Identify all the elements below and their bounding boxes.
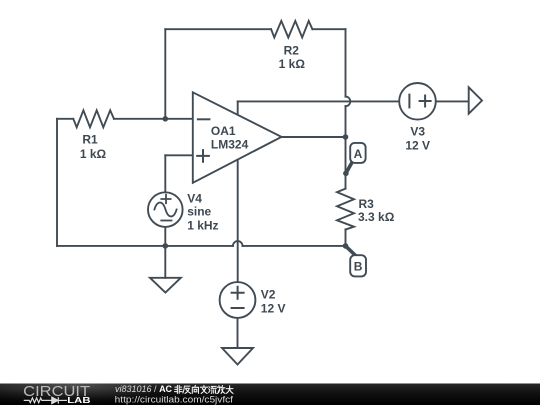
wire op-amp output bbox=[282, 136, 346, 138]
output flag bbox=[469, 87, 482, 113]
svg-text:B: B bbox=[354, 259, 363, 273]
svg-text:1 kHz: 1 kHz bbox=[187, 218, 218, 232]
svg-text:vi831016 / AC: vi831016 / AC bbox=[115, 384, 173, 394]
wire V3 to output flag bbox=[436, 100, 469, 102]
svg-text:sine: sine bbox=[187, 205, 211, 219]
wire top feedback left segment bbox=[165, 28, 271, 30]
node B box bbox=[350, 255, 366, 276]
V2 plus sign bbox=[232, 287, 244, 299]
junction dot output node bbox=[343, 134, 349, 140]
junction dot node A bbox=[343, 171, 349, 177]
wire vertical output node to R3 bbox=[345, 137, 347, 189]
wire R3 bottom to node B bbox=[345, 230, 347, 246]
resistor R3 bbox=[337, 189, 354, 230]
svg-text:V2: V2 bbox=[261, 287, 276, 301]
wire noninverting input horizontal bbox=[165, 154, 193, 156]
wire hop over V- supply wire bbox=[233, 241, 243, 246]
wire ground stem under V4 node bbox=[164, 246, 166, 278]
CJK char xiang bbox=[192, 385, 198, 393]
V4 plus sign bbox=[161, 195, 170, 203]
wire op-amp V+ pin stub bbox=[237, 101, 239, 115]
V4 sine symbol bbox=[154, 203, 176, 217]
wire V+ supply horizontal to V3 bbox=[238, 100, 400, 102]
svg-text:1 kΩ: 1 kΩ bbox=[80, 147, 107, 161]
voltage source V4 circle bbox=[148, 192, 183, 227]
svg-text:LM324: LM324 bbox=[211, 138, 249, 152]
svg-text:12 V: 12 V bbox=[405, 139, 430, 153]
voltage source V2 circle bbox=[220, 282, 256, 318]
svg-text:http://circuitlab.com/c5jvfcf: http://circuitlab.com/c5jvfcf bbox=[115, 394, 234, 404]
V4 minus sign bbox=[161, 220, 171, 222]
CJK char da bbox=[226, 386, 233, 394]
ground under V2 bbox=[222, 348, 253, 365]
voltage source V3 circle bbox=[399, 83, 436, 120]
svg-text:R2: R2 bbox=[284, 44, 300, 58]
svg-text:R1: R1 bbox=[82, 133, 98, 147]
svg-text:3.3 kΩ: 3.3 kΩ bbox=[358, 210, 395, 224]
wire V2 bottom to ground bbox=[237, 318, 239, 348]
wire op-amp V- pin to V2 bbox=[237, 160, 239, 282]
svg-text:LAB: LAB bbox=[67, 395, 90, 405]
V2 minus sign bbox=[232, 307, 244, 309]
svg-text:V3: V3 bbox=[410, 124, 425, 138]
node A box bbox=[350, 143, 365, 163]
logo resistor-diode squiggle bbox=[24, 397, 67, 404]
svg-text:1 kΩ: 1 kΩ bbox=[279, 57, 306, 71]
wire hop over V+ supply wire bbox=[346, 97, 351, 107]
V3 minus bar bbox=[408, 95, 410, 108]
CJK char liu bbox=[209, 386, 217, 393]
op-amp U1 OA1 triangle bbox=[193, 92, 282, 183]
wire feedback left vertical bbox=[164, 29, 166, 119]
ground under V4 node bbox=[150, 278, 181, 293]
footer logo glow bbox=[0, 384, 150, 405]
wire left rail vertical bbox=[56, 119, 58, 246]
wire R1 left lead bbox=[57, 118, 73, 120]
svg-text:R3: R3 bbox=[359, 197, 375, 211]
svg-text:12 V: 12 V bbox=[261, 302, 286, 316]
svg-text:V4: V4 bbox=[187, 192, 202, 206]
node A pointer bbox=[346, 162, 353, 174]
wire bottom rail right of hop bbox=[243, 245, 346, 247]
junction dot node B bbox=[343, 243, 349, 249]
wire R2 right vertical above hop bbox=[345, 29, 347, 96]
footer title CJK characters drawn as paths bbox=[175, 385, 234, 393]
junction dot V4 bottom node bbox=[163, 243, 169, 249]
CJK char fei bbox=[175, 385, 183, 393]
CJK char jiao bbox=[200, 385, 207, 393]
wire R2 right vertical below hop bbox=[345, 106, 347, 137]
node B pointer bbox=[346, 246, 356, 256]
wire noninverting input vertical to V4 bbox=[164, 155, 166, 192]
footer bar bbox=[0, 384, 540, 405]
wire bottom rail left of hop bbox=[57, 245, 233, 247]
svg-text:A: A bbox=[354, 147, 363, 161]
resistor R1 bbox=[73, 110, 114, 127]
wire top feedback right segment bbox=[312, 28, 345, 30]
CJK char fang bbox=[217, 386, 225, 394]
op-amp minus input sign bbox=[198, 118, 210, 120]
svg-text:OA1: OA1 bbox=[211, 124, 236, 138]
wire R1 to inverting input bbox=[114, 118, 193, 120]
resistor R2 bbox=[271, 21, 312, 38]
junction dot inverting input node bbox=[163, 116, 169, 122]
op-amp plus input sign bbox=[197, 150, 209, 162]
V3 plus sign bbox=[420, 96, 431, 107]
CJK char fan bbox=[183, 386, 191, 393]
wire V4 bottom bbox=[164, 227, 166, 246]
